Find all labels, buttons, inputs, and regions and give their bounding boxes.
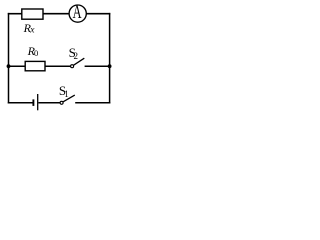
wire: bottom left segment (frame to battery)	[8, 102, 33, 104]
wire: top segment ammeter to right frame	[86, 13, 110, 15]
svg-text:2: 2	[74, 51, 79, 61]
svg-text:0: 0	[34, 48, 38, 58]
switch S2 pivot circle	[71, 65, 74, 68]
switch S1 pivot circle	[60, 101, 63, 104]
resistor R0 (box)	[25, 61, 45, 70]
wire: bottom segment battery to switch S1	[38, 102, 60, 104]
battery short plate (negative)	[32, 99, 34, 106]
svg-text:A: A	[73, 3, 82, 23]
wire: top left segment (frame corner to Rx box)	[8, 13, 22, 15]
battery long plate (positive)	[37, 94, 39, 110]
wire: right frame vertical	[109, 13, 111, 104]
svg-text:x: x	[29, 26, 35, 36]
node: left junction dot	[7, 64, 11, 68]
switch S2 blade	[73, 58, 84, 65]
resistor Rx (box)	[22, 9, 43, 19]
wire: bottom segment switch to right frame	[75, 102, 110, 104]
ammeter A (circle)	[69, 5, 86, 22]
node: right junction dot	[108, 64, 112, 68]
svg-text:1: 1	[64, 89, 69, 99]
wire: middle left segment (left frame to R0 box)	[9, 65, 26, 67]
switch S1 blade	[63, 95, 75, 102]
wire: left frame vertical	[8, 13, 10, 104]
wire: top segment box to ammeter	[43, 13, 70, 15]
wire: middle segment switch to right frame	[85, 65, 110, 67]
wire: middle segment box to switch S2	[45, 65, 71, 67]
